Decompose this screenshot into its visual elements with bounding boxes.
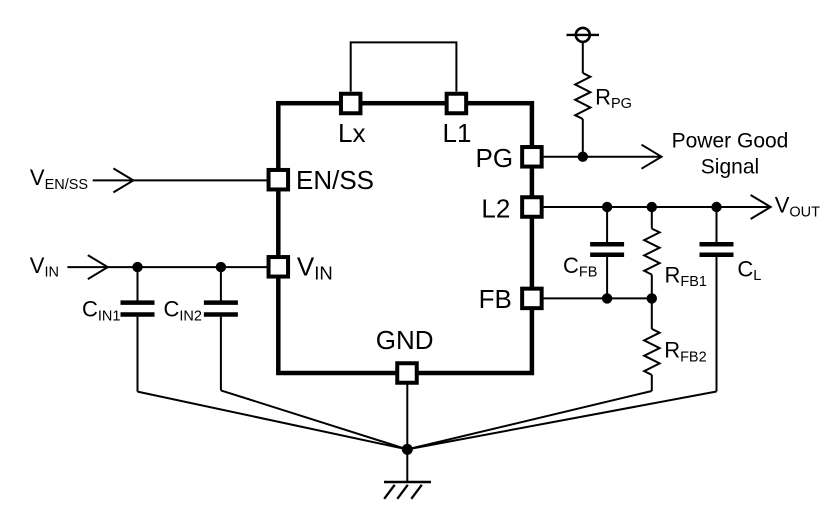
- arrow on VEN/SS wire: [113, 168, 133, 192]
- node FB-CFB junction: [602, 293, 612, 303]
- IC body U1: [278, 103, 532, 373]
- svg-text:FB: FB: [479, 284, 512, 314]
- svg-text:PG: PG: [476, 143, 514, 173]
- ground symbol: [384, 482, 431, 499]
- arrow on VIN wire: [88, 255, 108, 279]
- node PG junction: [578, 152, 588, 162]
- svg-text:Signal: Signal: [701, 156, 759, 179]
- pin L2: [481, 193, 541, 223]
- wire GND pin to ground: [406, 385, 408, 482]
- pin Lx: [338, 94, 365, 148]
- wire FB pin to RFB1 node: [543, 297, 651, 299]
- pin L1: [443, 94, 472, 148]
- node VIN-CIN2 junction: [216, 262, 226, 272]
- label Power Good Signal: [672, 129, 789, 178]
- pin FB: [479, 284, 542, 314]
- resistor RFB2: [644, 298, 706, 391]
- node FB-RFB1 junction: [647, 293, 657, 303]
- wire CL to ground node: [407, 392, 716, 450]
- terminal RPG top: [567, 28, 600, 42]
- pin PG: [476, 143, 542, 173]
- wire PG pin to arrow: [543, 156, 661, 158]
- wire VIN to VIN pin: [67, 266, 266, 268]
- capacitor CIN2: [164, 267, 238, 390]
- wire CIN2 to ground node: [221, 390, 407, 449]
- node VIN-CIN1 junction: [132, 262, 142, 272]
- capacitor CL: [700, 207, 762, 392]
- pin VIN: [269, 252, 333, 284]
- svg-text:Power Good: Power Good: [672, 129, 789, 152]
- resistor RPG: [575, 73, 632, 119]
- wire VEN/SS to EN/SS pin: [93, 179, 267, 181]
- capacitor CFB: [563, 207, 624, 298]
- wire RPG to PG node: [582, 119, 584, 157]
- svg-text:Lx: Lx: [338, 118, 365, 148]
- node L2-CFB junction: [602, 202, 612, 212]
- capacitor CIN1: [82, 267, 155, 392]
- svg-text:GND: GND: [376, 325, 434, 355]
- wire CIN1 to ground node: [138, 392, 408, 450]
- wire RFB2 to ground node: [407, 391, 652, 449]
- resistor RFB1: [644, 207, 707, 298]
- node L2-CL junction: [711, 202, 721, 212]
- svg-text:L2: L2: [481, 193, 510, 223]
- svg-text:EN/SS: EN/SS: [296, 165, 374, 195]
- pin EN/SS: [269, 165, 374, 195]
- arrow VOUT: [751, 195, 771, 219]
- node ground junction: [402, 444, 413, 455]
- node L2-RFB1 junction: [647, 202, 657, 212]
- arrow Power Good: [642, 145, 662, 169]
- svg-text:L1: L1: [443, 118, 472, 148]
- wire inductor loop Lx to L1: [351, 42, 457, 91]
- wire L2 pin to VOUT arrow: [543, 206, 770, 208]
- pin GND: [376, 325, 434, 383]
- wire terminal to RPG: [582, 42, 584, 73]
